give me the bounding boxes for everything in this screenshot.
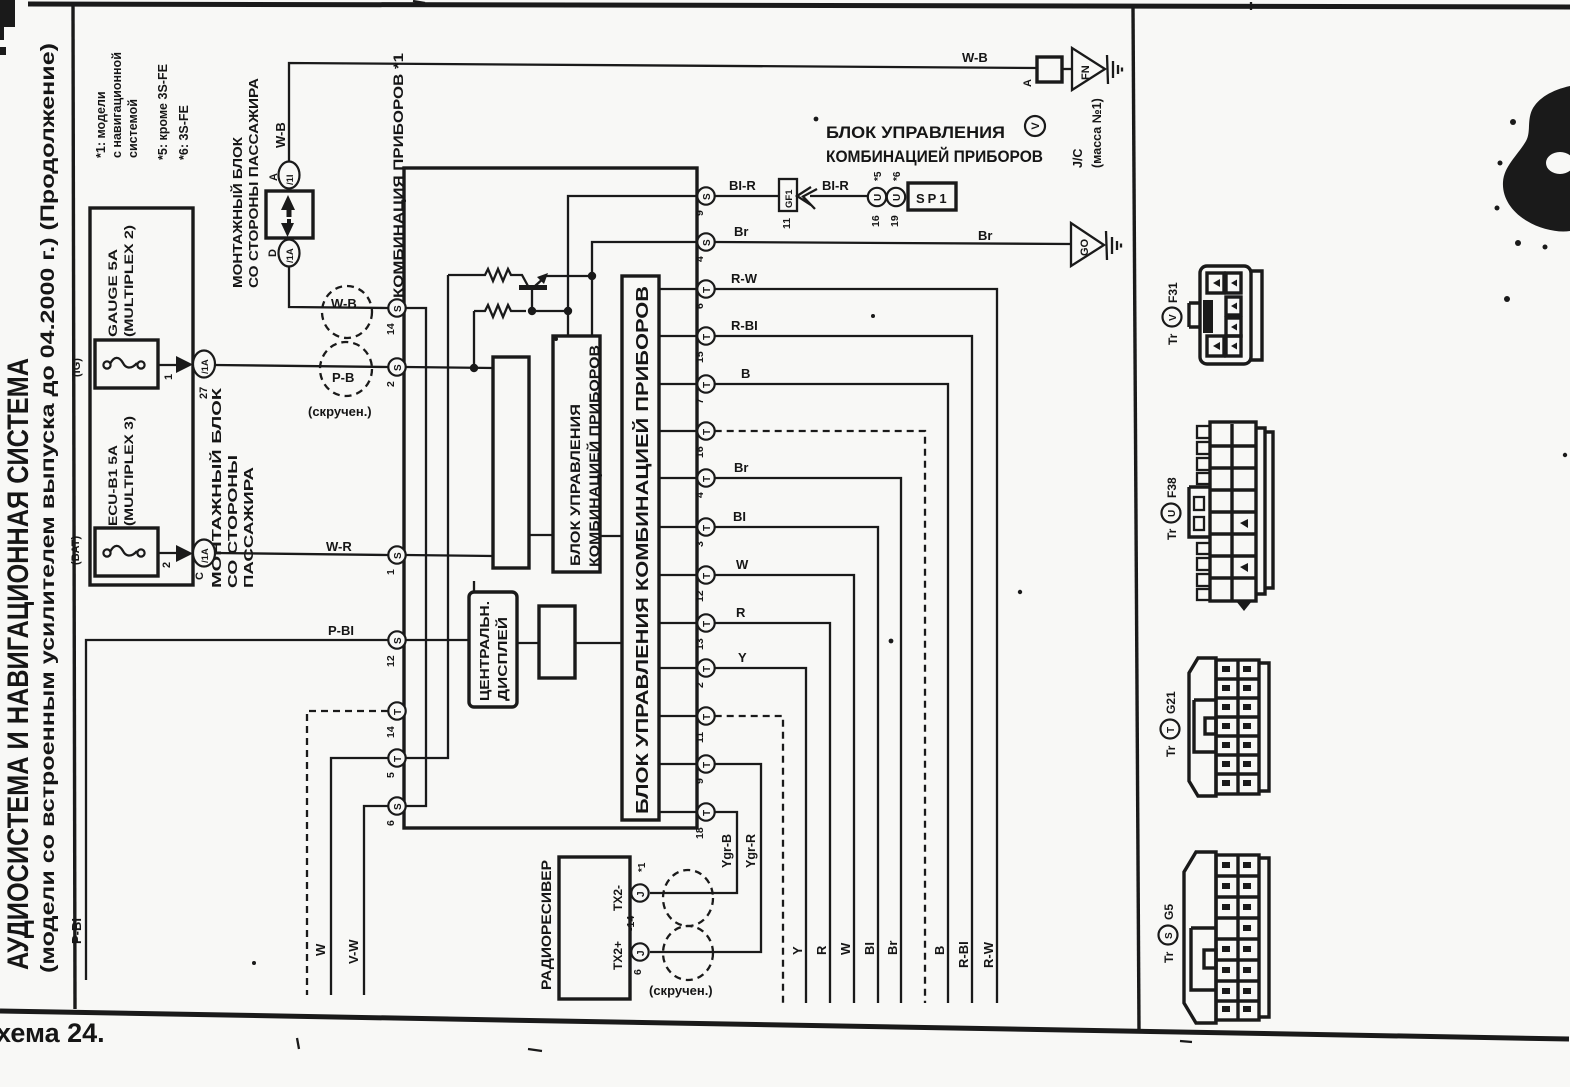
svg-text:GO: GO bbox=[1079, 238, 1091, 256]
svg-text:S: S bbox=[393, 803, 404, 810]
connector GF1 bbox=[779, 179, 797, 211]
svg-text:W: W bbox=[838, 942, 853, 955]
node 7(T) right edge y=384 bbox=[697, 375, 714, 392]
wire node 2S to box B1 bbox=[406, 367, 493, 368]
svg-text:(скручен.): (скручен.) bbox=[649, 983, 713, 998]
svg-text:T: T bbox=[702, 382, 713, 388]
tick marks on borders bbox=[297, 1, 1251, 1051]
svg-text:W-B: W-B bbox=[273, 122, 288, 148]
node 18(T) right edge y=812 bbox=[697, 803, 714, 820]
node 16(T) right edge y=431 bbox=[697, 422, 714, 439]
svg-text:Tr: Tr bbox=[1162, 951, 1176, 963]
svg-text:хема 24.: хема 24. bbox=[0, 1018, 105, 1048]
svg-text:T: T bbox=[702, 287, 713, 293]
svg-text:T: T bbox=[702, 762, 713, 768]
node 14(S) left edge y=308 bbox=[388, 299, 405, 316]
connector node 1A lower bbox=[279, 240, 300, 267]
wire node 3 to box C bbox=[659, 526, 697, 528]
svg-text:G5: G5 bbox=[1162, 904, 1176, 920]
svg-text:13: 13 bbox=[694, 638, 706, 650]
V3 wire node 14S to node 6S bbox=[406, 308, 426, 806]
connector node 1A (fuse GAUGE) bbox=[193, 351, 215, 378]
resistor R2 bbox=[474, 305, 526, 317]
svg-text:11: 11 bbox=[781, 218, 793, 229]
svg-text:*5: кроме 3S-FE: *5: кроме 3S-FE bbox=[156, 64, 170, 160]
wire fuse2 to arrow bbox=[158, 552, 178, 554]
page bottom border bbox=[0, 1011, 1569, 1039]
wire Br node4 to ground GO bbox=[715, 242, 1071, 244]
svg-text:11: 11 bbox=[694, 732, 706, 743]
svg-text:1: 1 bbox=[163, 374, 175, 380]
node 12(S) left edge y=640 bbox=[388, 631, 405, 648]
svg-text:R: R bbox=[736, 605, 746, 620]
ground triangle FN bbox=[1072, 48, 1105, 90]
svg-text:/1I: /1I bbox=[285, 174, 296, 185]
svg-text:Y: Y bbox=[738, 650, 747, 665]
svg-text:12: 12 bbox=[694, 590, 706, 602]
dashed wire from node 14T bbox=[307, 711, 388, 995]
wire node 18T down to radio TX2- bbox=[650, 812, 737, 893]
node 2(S) left edge y=367 bbox=[388, 358, 405, 375]
svg-text:18: 18 bbox=[694, 827, 706, 839]
svg-text:D: D bbox=[267, 249, 279, 257]
node 13(T) right edge y=623 bbox=[697, 614, 714, 631]
svg-text:*5: *5 bbox=[873, 171, 884, 181]
wire BI from node y=527 bbox=[715, 527, 878, 1003]
scan noise dots bbox=[814, 117, 819, 122]
svg-text:FN: FN bbox=[1080, 65, 1092, 80]
svg-text:V: V bbox=[1030, 122, 1042, 130]
svg-text:Br: Br bbox=[978, 228, 992, 243]
svg-text:(MULTIPLEX 3): (MULTIPLEX 3) bbox=[124, 416, 136, 526]
svg-text:16: 16 bbox=[870, 215, 882, 227]
svg-text:W: W bbox=[736, 557, 749, 572]
svg-text:(скручен.): (скручен.) bbox=[308, 404, 372, 419]
svg-text:12: 12 bbox=[385, 655, 397, 667]
svg-text:КОМБИНАЦИЕЙ ПРИБОРОВ: КОМБИНАЦИЕЙ ПРИБОРОВ bbox=[826, 147, 1043, 166]
svg-text:6: 6 bbox=[385, 820, 397, 826]
svg-text:СО СТОРОНЫ: СО СТОРОНЫ bbox=[225, 455, 240, 588]
node J TX2- bbox=[631, 884, 648, 901]
svg-text:2: 2 bbox=[161, 562, 173, 568]
svg-text:BI-R: BI-R bbox=[729, 178, 756, 193]
svg-text:T: T bbox=[702, 714, 713, 720]
wire BI-R to splice bbox=[810, 195, 868, 197]
wire node 2 to box C bbox=[659, 667, 697, 669]
inner box B2 control unit bbox=[553, 336, 600, 572]
ground triangle GO bbox=[1071, 223, 1104, 266]
svg-text:W: W bbox=[313, 943, 328, 956]
wire to ground FN bbox=[1062, 68, 1072, 70]
svg-text:R-W: R-W bbox=[731, 271, 758, 286]
wire BI-R node9 to GF1 bbox=[715, 195, 779, 197]
resistor R1 bbox=[448, 269, 516, 281]
wire node 13 to box C bbox=[659, 622, 697, 624]
wire dashed from node y=716 bbox=[715, 716, 783, 1003]
svg-text:Ygr-R: Ygr-R bbox=[744, 834, 758, 868]
node 5(T) left edge y=758 bbox=[388, 749, 405, 766]
wire node 4 to box C bbox=[659, 477, 697, 479]
svg-text:S: S bbox=[393, 552, 404, 559]
svg-text:U: U bbox=[1167, 510, 1178, 517]
central display box bbox=[469, 592, 517, 707]
svg-text:3: 3 bbox=[694, 541, 706, 547]
svg-text:S: S bbox=[1164, 932, 1175, 939]
splice node U *6 bbox=[887, 188, 905, 206]
svg-text:P-BI: P-BI bbox=[328, 623, 354, 638]
svg-text:/1A: /1A bbox=[285, 248, 296, 263]
svg-text:6: 6 bbox=[632, 969, 644, 975]
svg-text:A: A bbox=[1022, 79, 1034, 87]
svg-text:4: 4 bbox=[694, 256, 706, 262]
node J TX2+ bbox=[631, 943, 648, 960]
wire from relay node down to combination meter pin 14 bbox=[289, 266, 388, 308]
node 9(T) right edge y=764 bbox=[697, 755, 714, 772]
svg-text:*1: *1 bbox=[637, 862, 648, 872]
svg-text:F31: F31 bbox=[1166, 282, 1180, 303]
node 9(S) right edge y=196 bbox=[697, 187, 714, 204]
svg-text:БЛОК УПРАВЛЕНИЯ: БЛОК УПРАВЛЕНИЯ bbox=[826, 123, 1005, 142]
transistor emitter with arrow bbox=[535, 277, 545, 286]
wire B from node y=384 bbox=[715, 384, 948, 1003]
svg-text:W-B: W-B bbox=[331, 296, 357, 311]
svg-text:4: 4 bbox=[694, 492, 706, 498]
svg-text:1: 1 bbox=[385, 569, 397, 575]
wire dashed from node y=431 bbox=[715, 431, 925, 1003]
svg-text:B: B bbox=[741, 366, 750, 381]
svg-text:Y: Y bbox=[790, 946, 805, 955]
svg-text:T: T bbox=[702, 573, 713, 579]
svg-text:T: T bbox=[1166, 727, 1177, 733]
ground symbol bbox=[1106, 231, 1121, 260]
splice SP1 bbox=[908, 183, 956, 210]
svg-text:U: U bbox=[873, 194, 884, 201]
svg-text:SP1: SP1 bbox=[916, 191, 950, 206]
svg-text:19: 19 bbox=[889, 215, 901, 227]
svg-text:R-W: R-W bbox=[981, 941, 996, 968]
connector node 1A (fuse ECU) bbox=[193, 540, 215, 567]
svg-text:P-BI: P-BI bbox=[69, 918, 84, 944]
svg-text:V: V bbox=[1168, 314, 1179, 321]
junction block (fuse box) outline bbox=[90, 208, 193, 585]
svg-text:/1A: /1A bbox=[200, 359, 211, 374]
radio receiver box bbox=[559, 857, 630, 999]
node 4(S) right edge y=242 bbox=[697, 233, 714, 250]
svg-text:-14: -14 bbox=[625, 916, 637, 931]
svg-text:(IG): (IG) bbox=[71, 358, 83, 377]
svg-text:14: 14 bbox=[385, 726, 397, 738]
svg-text:U: U bbox=[892, 194, 903, 201]
wire node 6 to box C bbox=[659, 288, 697, 290]
svg-text:TX2+: TX2+ bbox=[611, 941, 625, 970]
svg-text:2: 2 bbox=[694, 682, 706, 688]
ink blob scan artifact right edge bbox=[1503, 86, 1570, 232]
svg-text:(MULTIPLEX 2): (MULTIPLEX 2) bbox=[124, 225, 136, 337]
inner plain box B1 bbox=[493, 357, 529, 568]
connector arrow into GF1 bbox=[797, 187, 817, 209]
svg-text:МОНТАЖНЫЙ БЛОК: МОНТАЖНЫЙ БЛОК bbox=[230, 137, 245, 288]
svg-text:КОМБИНАЦИЯ ПРИБОРОВ *1: КОМБИНАЦИЯ ПРИБОРОВ *1 bbox=[391, 52, 406, 298]
wire node 7 to box C bbox=[659, 383, 697, 385]
wire display to box D bbox=[517, 642, 539, 644]
svg-text:Tr: Tr bbox=[1165, 528, 1179, 540]
inner small box D bbox=[539, 606, 575, 678]
wire node 4S to V2 bbox=[592, 242, 697, 337]
svg-text:G21: G21 bbox=[1164, 691, 1178, 714]
page right border bbox=[1133, 7, 1139, 1031]
wire P-BI from node 12S bbox=[86, 640, 388, 980]
svg-text:A: A bbox=[268, 173, 280, 181]
fuse GAUGE 5A box bbox=[95, 340, 158, 388]
svg-text:системой: системой bbox=[126, 99, 140, 158]
node 1(S) left edge y=555 bbox=[388, 546, 405, 563]
svg-text:W-R: W-R bbox=[326, 539, 352, 554]
svg-text:ЦЕНТРАЛЬН.: ЦЕНТРАЛЬН. bbox=[478, 601, 492, 701]
wire node 12S to display box bbox=[406, 639, 469, 641]
svg-text:РАДИОРЕСИВЕР: РАДИОРЕСИВЕР bbox=[538, 860, 554, 990]
svg-text:T: T bbox=[702, 334, 713, 340]
svg-text:T: T bbox=[393, 756, 404, 762]
wire node 9 to box C bbox=[659, 763, 697, 765]
node 2(T) right edge y=668 bbox=[697, 659, 714, 676]
connector G21 bbox=[1189, 658, 1269, 796]
svg-text:T: T bbox=[702, 476, 713, 482]
fuse ECU-B1 5A box bbox=[95, 528, 158, 576]
corner black mark top-left bbox=[0, 0, 15, 55]
svg-text:5: 5 bbox=[385, 772, 397, 778]
svg-text:R: R bbox=[814, 945, 829, 955]
wire node 9S to V1 bbox=[568, 196, 697, 337]
svg-text:R-BI: R-BI bbox=[956, 941, 971, 968]
wire node 16 to box C bbox=[659, 430, 697, 432]
svg-text:T: T bbox=[393, 709, 404, 715]
connector node 1I upper bbox=[279, 162, 300, 189]
wire node 12 to box C bbox=[659, 574, 697, 576]
svg-text:14: 14 bbox=[385, 323, 397, 335]
V5 wire from R2 down to node2 wire bbox=[473, 311, 475, 368]
svg-text:GAUGE 5A: GAUGE 5A bbox=[108, 249, 120, 337]
svg-text:2: 2 bbox=[385, 381, 397, 387]
collector wire to V1 bbox=[532, 310, 568, 312]
wire V-W from node 6S bbox=[364, 806, 388, 995]
svg-text:27: 27 bbox=[198, 387, 210, 399]
svg-text:7: 7 bbox=[694, 398, 706, 404]
svg-text:T: T bbox=[702, 525, 713, 531]
svg-text:(модели со встроенным усилител: (модели со встроенным усилителем выпуска… bbox=[37, 43, 59, 973]
wire W from node y=575 bbox=[715, 575, 854, 1003]
wire node 1S to box B1 bbox=[406, 555, 493, 556]
svg-text:S: S bbox=[393, 637, 404, 644]
svg-text:*1: модели: *1: модели bbox=[94, 91, 108, 158]
svg-text:ПАССАЖИРА: ПАССАЖИРА bbox=[241, 466, 256, 588]
svg-text:(BAT): (BAT) bbox=[70, 536, 82, 565]
fuse GAUGE element bbox=[103, 361, 110, 368]
svg-text:F38: F38 bbox=[1165, 477, 1179, 498]
collector junction bbox=[528, 307, 536, 315]
node 14(T) left edge y=711 bbox=[388, 702, 405, 719]
wire P-B: connector 1A to combination meter pin 2 bbox=[215, 365, 388, 367]
svg-text:БЛОК УПРАВЛЕНИЯ: БЛОК УПРАВЛЕНИЯ bbox=[568, 404, 583, 566]
svg-text:15: 15 bbox=[694, 351, 706, 363]
connector G5 bbox=[1184, 852, 1269, 1023]
svg-text:TX2-: TX2- bbox=[611, 885, 625, 911]
svg-text:ДИСПЛЕЙ: ДИСПЛЕЙ bbox=[495, 617, 510, 701]
wire node 15 to box C bbox=[659, 335, 697, 337]
wire node 11 to box C bbox=[659, 715, 697, 717]
svg-text:T: T bbox=[702, 810, 713, 816]
twisted pair symbol W-B bbox=[322, 286, 372, 338]
node 4(T) right edge y=478 bbox=[697, 469, 714, 486]
svg-text:Tr: Tr bbox=[1166, 333, 1180, 345]
base lead to transistor bbox=[516, 275, 528, 286]
svg-text:J/C: J/C bbox=[1071, 149, 1085, 168]
node 3(T) right edge y=527 bbox=[697, 518, 714, 535]
V5 stub above display box bbox=[473, 581, 475, 592]
svg-text:с навигационной: с навигационной bbox=[110, 52, 124, 158]
svg-text:S: S bbox=[393, 305, 404, 312]
arrow into connector 1A lower bbox=[176, 545, 193, 562]
arrow into connector 1A bbox=[176, 356, 193, 373]
wire W from node 5T bbox=[331, 758, 388, 995]
svg-text:9: 9 bbox=[694, 778, 706, 784]
svg-text:C: C bbox=[194, 572, 206, 580]
svg-text:9: 9 bbox=[694, 210, 706, 216]
svg-text:СО СТОРОНЫ ПАССАЖИРА: СО СТОРОНЫ ПАССАЖИРА bbox=[246, 77, 261, 288]
node 12(T) right edge y=575 bbox=[697, 566, 714, 583]
node 11(T) right edge y=716 bbox=[697, 707, 714, 724]
svg-text:*6: 3S-FE: *6: 3S-FE bbox=[177, 105, 191, 160]
connector F38 bbox=[1189, 422, 1273, 601]
svg-text:R-BI: R-BI bbox=[731, 318, 758, 333]
svg-text:(масса №1): (масса №1) bbox=[1090, 98, 1104, 168]
current-flow arrow up inside block bbox=[281, 195, 295, 217]
svg-text:Ygr-B: Ygr-B bbox=[720, 834, 734, 868]
wire node 9T down to radio TX2+ bbox=[650, 764, 761, 952]
node 6(S) left edge y=806 bbox=[388, 797, 405, 814]
svg-text:T: T bbox=[702, 429, 713, 435]
twisted pair radio upper bbox=[663, 870, 713, 926]
svg-text:T: T bbox=[702, 666, 713, 672]
svg-text:W-B: W-B bbox=[962, 50, 988, 65]
twisted pair radio lower bbox=[663, 926, 713, 980]
wire Br from node y=478 bbox=[715, 478, 901, 1003]
svg-text:КОМБИНАЦИЕЙ ПРИБОРОВ: КОМБИНАЦИЕЙ ПРИБОРОВ bbox=[587, 345, 602, 567]
wire B2 to box C bbox=[600, 535, 622, 537]
circled V bbox=[1025, 116, 1045, 136]
svg-text:J: J bbox=[636, 950, 647, 956]
svg-text:GF1: GF1 bbox=[784, 189, 795, 208]
svg-text:16: 16 bbox=[694, 446, 706, 458]
ground symbol no.1 bbox=[1107, 55, 1122, 84]
svg-text:BI-R: BI-R bbox=[822, 178, 849, 193]
svg-text:Br: Br bbox=[734, 224, 748, 239]
inner big box C control unit bbox=[622, 276, 659, 820]
svg-text:BI: BI bbox=[862, 942, 877, 955]
wire box D to box C bbox=[575, 642, 622, 644]
fuse ECU-B1 element bbox=[103, 549, 110, 556]
wire R from node y=623 bbox=[715, 623, 830, 1003]
wire node 18 to box C bbox=[659, 811, 697, 813]
node 15(T) right edge y=336 bbox=[697, 327, 714, 344]
svg-text:Br: Br bbox=[885, 941, 900, 955]
V4 wire from R1 down to node 5T bbox=[406, 275, 448, 758]
svg-text:6: 6 bbox=[694, 303, 706, 309]
svg-text:T: T bbox=[702, 621, 713, 627]
svg-text:БЛОК УПРАВЛЕНИЯ КОМБИНАЦИЕЙ ПР: БЛОК УПРАВЛЕНИЯ КОМБИНАЦИЕЙ ПРИБОРОВ bbox=[631, 286, 652, 814]
svg-text:V-W: V-W bbox=[346, 939, 361, 964]
svg-text:АУДИОСИСТЕМА И НАВИГАЦИОННАЯ С: АУДИОСИСТЕМА И НАВИГАЦИОННАЯ СИСТЕМА bbox=[2, 358, 35, 970]
transistor collector lead bbox=[531, 289, 533, 311]
svg-text:Br: Br bbox=[734, 460, 748, 475]
connector F31 bbox=[1189, 266, 1262, 364]
wire R-W from node y=289 bbox=[715, 289, 997, 1003]
wire W-B from relay node up and across page top bbox=[289, 63, 1037, 162]
svg-text:S: S bbox=[702, 239, 713, 246]
wire W-R: connector 1A lower to combination meter pin 1 bbox=[215, 553, 388, 555]
splice node U *5 bbox=[868, 188, 886, 206]
svg-text:BI: BI bbox=[733, 509, 746, 524]
page top border bbox=[28, 4, 1570, 7]
wire fuse1 to arrow bbox=[158, 364, 178, 366]
svg-text:/1A: /1A bbox=[200, 548, 211, 563]
svg-text:*6: *6 bbox=[892, 171, 903, 181]
svg-text:B: B bbox=[932, 946, 947, 955]
wire Y from node y=668 bbox=[715, 668, 806, 1003]
svg-text:S: S bbox=[393, 364, 404, 371]
relay junction block box bbox=[266, 191, 313, 238]
node 6(T) right edge y=289 bbox=[697, 280, 714, 297]
svg-text:J: J bbox=[636, 891, 647, 897]
svg-text:ECU-B1 5A: ECU-B1 5A bbox=[108, 445, 120, 526]
transistor base bar bbox=[519, 285, 547, 290]
wire B1 to B2 bbox=[529, 534, 553, 536]
page left border bbox=[73, 6, 75, 1009]
combination meter block outline bbox=[404, 168, 697, 828]
svg-text:S: S bbox=[702, 193, 713, 200]
svg-text:Tr: Tr bbox=[1164, 745, 1178, 757]
svg-text:P-B: P-B bbox=[332, 370, 354, 385]
current-flow arrow down inside block bbox=[281, 219, 294, 237]
twisted pair symbol P-B bbox=[320, 342, 372, 396]
junction box A on W-B wire bbox=[1037, 57, 1062, 82]
emitter wire to V2 bbox=[546, 275, 592, 277]
wire R-BI from node y=336 bbox=[715, 336, 972, 1003]
